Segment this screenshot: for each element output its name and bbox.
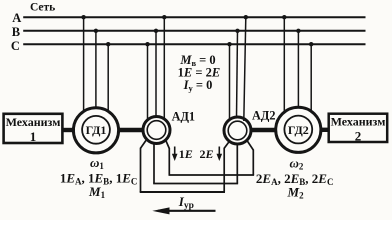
machine ГД2 outer circle xyxy=(276,107,321,152)
equalizing current arrow xyxy=(152,207,215,214)
mechanism 1 box xyxy=(4,114,63,143)
rotor wire АД2 middle vertical xyxy=(236,144,238,184)
EMF arrow 2E down xyxy=(217,147,223,162)
junction dot A-ГД1 xyxy=(81,15,85,19)
ГД1 feed wire phase B xyxy=(95,31,97,108)
svg-text:Механизм: Механизм xyxy=(331,115,386,129)
rotor wire middle horizontal (middle U) xyxy=(153,183,238,185)
bus wire A xyxy=(23,16,365,18)
rotor wire bottom horizontal (outer U) xyxy=(140,191,225,193)
rotor wire АД2 right diagonal xyxy=(247,140,254,150)
ГД1 feed wire phase A xyxy=(83,17,85,112)
junction dot A-АД1 xyxy=(162,15,166,19)
machine АД2 inner circle xyxy=(228,121,247,140)
svg-text:ГД1: ГД1 xyxy=(86,123,107,137)
svg-text:1: 1 xyxy=(30,129,37,144)
АД1 feed wire phase B xyxy=(155,31,157,117)
shaft mechanism1-ГД1 xyxy=(62,128,75,132)
ГД2 feed wire phase B xyxy=(297,31,299,107)
machine ГД1 inner circle xyxy=(82,116,110,144)
ГД2 feed wire phase A xyxy=(283,17,285,111)
svg-text:1Е: 1Е xyxy=(179,147,193,161)
bus wire C xyxy=(23,43,365,45)
junction dot C-ГД2 xyxy=(309,42,313,46)
junction dot B-АД1 xyxy=(154,29,158,33)
junction dot C-ГД1 xyxy=(106,42,110,46)
machine АД1 outer circle xyxy=(143,117,170,144)
svg-text:Механизм: Механизм xyxy=(6,115,61,129)
svg-text:Іу = 0: Іу = 0 xyxy=(183,78,213,93)
АД2 feed wire phase C xyxy=(229,44,231,121)
АД2 feed wire phase A xyxy=(244,17,246,121)
shaft ГД1-АД1 xyxy=(118,128,145,132)
mechanism 2 box xyxy=(329,114,388,142)
svg-text:АД1: АД1 xyxy=(172,109,196,123)
svg-text:ГД2: ГД2 xyxy=(288,123,309,137)
ГД1 feed wire phase C xyxy=(107,44,109,112)
svg-text:В: В xyxy=(12,25,20,39)
rotor wire top horizontal (inner U) xyxy=(169,174,255,176)
АД1 feed wire phase A xyxy=(163,17,165,120)
machine АД2 outer circle xyxy=(224,117,251,144)
junction dot A-АД2 xyxy=(244,15,248,19)
junction dot B-АД2 xyxy=(235,29,239,33)
svg-text:С: С xyxy=(11,39,20,53)
rotor wire АД1 middle vertical xyxy=(153,143,155,184)
machine ГД2 inner circle xyxy=(284,116,312,144)
junction dot B-ГД2 xyxy=(296,29,300,33)
svg-text:2: 2 xyxy=(355,128,362,143)
svg-text:2Е: 2Е xyxy=(200,147,214,161)
svg-text:А: А xyxy=(12,11,21,25)
rotor wire АД1 left vertical xyxy=(140,148,142,192)
machine ГД1 outer circle xyxy=(73,108,118,153)
machine АД1 inner circle xyxy=(147,121,166,140)
junction dot A-ГД2 xyxy=(282,15,286,19)
rotor wire АД2 left vertical xyxy=(223,148,225,192)
junction dot C-АД1 xyxy=(145,42,149,46)
EMF arrow 1E down xyxy=(172,147,178,162)
rotor wire АД1 right vertical xyxy=(168,148,170,175)
ГД2 feed wire phase C xyxy=(310,44,312,111)
rotor wire АД2 right vertical xyxy=(252,150,254,176)
АД2 feed wire phase B xyxy=(237,31,238,118)
bus wire B xyxy=(23,30,365,32)
junction dot B-ГД1 xyxy=(94,29,98,33)
rotor wire АД2 left diagonal xyxy=(224,141,230,148)
АД1 feed wire phase C xyxy=(147,44,149,120)
shaft ГД2-mechanism2 xyxy=(320,128,330,132)
junction dot C-АД2 xyxy=(227,42,231,46)
shaft АД2-ГД2 xyxy=(250,128,277,132)
svg-text:Сеть: Сеть xyxy=(30,2,55,14)
rotor wire АД1 left diagonal xyxy=(141,140,147,148)
svg-text:АД2: АД2 xyxy=(252,109,276,123)
rotor wire АД1 right diagonal xyxy=(166,140,170,149)
